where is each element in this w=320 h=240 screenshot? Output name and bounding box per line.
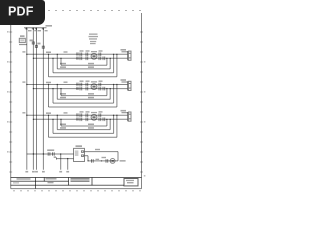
wire branch3b <box>57 115 110 129</box>
wire branch1d <box>49 54 117 76</box>
contact lamp2 <box>106 159 108 163</box>
wire rung1 second line <box>33 57 127 59</box>
title block divider a <box>35 178 37 189</box>
connector terminal block right rung1 <box>122 51 132 60</box>
sheet frame left border <box>10 13 12 189</box>
title block mid line 2 <box>11 184 124 186</box>
contact aux2b <box>99 87 101 91</box>
wire number labels left of rungs <box>22 51 25 52</box>
contact PB11 <box>80 118 82 122</box>
contact 4X <box>48 152 54 156</box>
title block divider c <box>91 178 93 186</box>
connector terminal block right rung3 <box>122 112 132 121</box>
coil PM2 <box>91 84 97 90</box>
labels rung3 <box>46 112 51 114</box>
tiny text smudges <box>7 25 145 184</box>
pilot lamp PL <box>110 159 115 164</box>
contact aux1a <box>99 53 101 57</box>
contact PB10 <box>86 113 88 117</box>
terminal box TB <box>74 148 85 161</box>
zone tick marks bottom margin <box>13 190 141 192</box>
junction dots rung3 <box>26 115 118 121</box>
note text top right <box>89 34 98 35</box>
contact PB12 <box>86 118 88 122</box>
contact aux3b <box>99 118 101 122</box>
ladder rung group 3 <box>26 112 131 137</box>
coil PM3 <box>91 114 97 120</box>
title block divider b <box>68 178 70 186</box>
junction dots rung2 <box>26 84 118 90</box>
wire drop V1 <box>60 154 62 170</box>
title block text center two lines <box>71 178 90 180</box>
sheet frame bottom border <box>11 188 142 190</box>
wire branch3c <box>53 115 114 133</box>
wire drop V2 <box>67 159 69 170</box>
title block divider a2 <box>43 178 45 182</box>
wire branch3d <box>49 115 117 137</box>
wire rung3 second line <box>33 118 127 120</box>
wire branch2a <box>61 89 107 96</box>
coil PM1 <box>91 53 97 59</box>
zone tick marks right margin <box>140 32 143 172</box>
contact aux3a <box>99 113 101 117</box>
zone tick marks left margin <box>9 32 12 172</box>
zone letter marks <box>7 31 9 33</box>
contact PB2 <box>86 53 88 57</box>
wire branch1c <box>53 54 114 73</box>
wire top feeder bus <box>24 28 47 30</box>
wire branch2d <box>49 85 117 108</box>
connector terminal block right rung2 <box>122 81 132 90</box>
wire branch2c <box>53 85 114 104</box>
contact PB3 <box>80 57 82 61</box>
bus line L3 vertical <box>36 28 38 170</box>
wire rung2 top line <box>27 84 128 86</box>
junction dots bottom <box>43 153 44 154</box>
contact lamp1 <box>92 159 94 163</box>
zone tick marks top margin <box>48 10 141 12</box>
contact aux3c <box>103 118 105 122</box>
transformer CPT box <box>19 38 27 44</box>
wire lamp line <box>85 156 119 161</box>
fuse FU2 on bus L3 <box>35 45 37 47</box>
PDF badge overlay <box>0 0 45 25</box>
wire branch1a <box>61 58 107 65</box>
contact aux1c <box>103 57 105 61</box>
contact PB6 <box>86 83 88 87</box>
bottom control section <box>27 148 118 169</box>
fuse FU3 on bus L4 <box>42 46 44 48</box>
contact PB5 <box>80 83 82 87</box>
contact PB9 <box>80 113 82 117</box>
wire rung2 second line <box>33 88 127 90</box>
bus line L4 vertical <box>42 28 44 170</box>
label fuse area <box>20 35 25 37</box>
wire bottom feed B <box>57 157 74 159</box>
title block <box>11 178 142 189</box>
title block mid line 1 <box>11 180 69 182</box>
ladder rung group 1 <box>26 51 131 77</box>
labels rung2 <box>46 82 51 84</box>
title block text revision <box>46 178 57 180</box>
bus line L1 vertical <box>26 28 28 170</box>
labels bus bottoms <box>25 171 28 173</box>
wire number labels above rungs <box>64 51 68 52</box>
wire bottom feed A <box>27 153 74 155</box>
sheet frame right border <box>141 13 143 189</box>
contact PB8 <box>86 87 88 91</box>
wire branch3a <box>61 119 107 126</box>
title block top line <box>11 177 142 179</box>
contact aux2c <box>103 87 105 91</box>
contact PB1 <box>80 53 82 57</box>
labels bottom section <box>47 149 54 151</box>
contact PB4 <box>86 57 88 61</box>
title block sheet box <box>124 179 138 186</box>
contact aux2a <box>99 83 101 87</box>
bus top extra labels <box>34 30 36 31</box>
title block sheet text <box>126 180 134 181</box>
contact PB7 <box>80 87 82 91</box>
wire branch2b <box>57 85 110 100</box>
ladder rung group 2 <box>26 81 131 107</box>
contact aux1b <box>99 57 101 61</box>
fuse FU1 on bus L2 <box>32 42 34 44</box>
wire branch1b <box>57 54 110 69</box>
wire box return top <box>85 152 119 161</box>
junction dots rung1 <box>26 54 118 59</box>
labels rung1 <box>46 52 51 54</box>
title block text left <box>17 178 31 180</box>
wire rung3 top line <box>27 114 128 116</box>
bus line L2 vertical <box>32 28 34 170</box>
wire rung1 top line <box>27 53 128 55</box>
